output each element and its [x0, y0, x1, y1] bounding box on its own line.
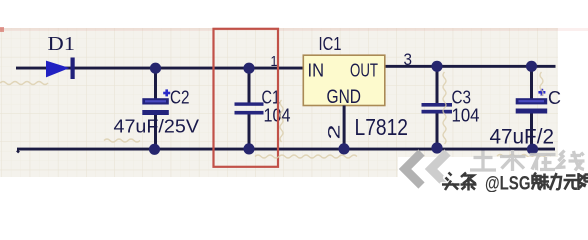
- value label 47uF/25V: [114, 115, 200, 136]
- junction dot: C1 top node: [243, 63, 254, 74]
- watermark dark text row: tou tiao @LSG mei li wu xian: [0, 0, 588, 192]
- watermark white band: [398, 157, 588, 192]
- capacitor C2 (electrolytic 47uF/25V): [142, 68, 169, 149]
- junction dot: GND pin node: [338, 143, 349, 154]
- diode D1: [46, 58, 75, 80]
- pin name OUT: [350, 60, 378, 81]
- value label 104 (C3): [452, 106, 480, 126]
- watermark logo chevron right: [431, 153, 448, 186]
- capacitor C4 (electrolytic 47uF/25V, clipped at right): [516, 65, 548, 149]
- watermark big gray text: xian: [558, 151, 585, 171]
- pin number 1: [271, 54, 278, 70]
- watermark char: tou: [442, 173, 460, 191]
- label D1: [48, 34, 76, 55]
- junction dot: C4 bottom node: [527, 144, 538, 155]
- junction dot: C3 top node: [431, 61, 442, 72]
- label C4 (clipped): [548, 88, 561, 108]
- plus sign of C4: [538, 89, 545, 96]
- schematic sheet background: [0, 28, 558, 177]
- wire: top rail from IC1 OUT pin to right edge: [385, 65, 556, 68]
- watermark big gray text: mu: [500, 150, 526, 171]
- watermark char: wu: [564, 176, 578, 190]
- junction dot: C4 top node: [526, 61, 537, 72]
- red highlight rectangle around C1: [214, 29, 279, 167]
- watermark char: li: [550, 173, 561, 190]
- junction dot: C2 top node: [150, 63, 161, 74]
- wire: top rail from left edge to IC1 IN pin: [16, 67, 304, 153]
- watermark char: xian: [579, 173, 588, 190]
- pin name GND: [327, 86, 362, 108]
- wire: GND pin of IC1 down to ground rail: [343, 106, 346, 149]
- label C3: [452, 88, 472, 108]
- capacitor C1 (ceramic 104): [235, 68, 264, 149]
- pink smear line across top: [0, 27, 588, 32]
- pin number 2 (rotated): [325, 125, 344, 140]
- value label 104 (C1): [264, 105, 291, 125]
- junction dot: C1 bottom node: [243, 143, 254, 154]
- watermark big gray text: zai: [530, 155, 556, 172]
- junction dot: C2 bottom node: [149, 144, 160, 155]
- label IC1: [319, 34, 342, 54]
- capacitor C3 (ceramic 104): [422, 65, 453, 148]
- watermark big gray text: tu: [470, 151, 496, 171]
- wire: bottom ground rail: [17, 148, 555, 151]
- pin number 3: [404, 50, 413, 69]
- junction dot: C3 bottom node: [431, 142, 442, 153]
- value label 47uF/25V (clipped to 47uF/2): [490, 126, 555, 149]
- pin name IN: [308, 60, 325, 81]
- svg-text:@LSG: @LSG: [485, 173, 531, 193]
- jpeg squiggle artifacts: [0, 72, 551, 158]
- watermark char: tiao: [461, 173, 477, 191]
- plus sign of C2: [163, 89, 170, 96]
- regulator IC1 body: [303, 55, 385, 105]
- label C2: [170, 87, 190, 107]
- watermark char: mei: [532, 173, 549, 190]
- watermark logo chevron left: [405, 153, 422, 186]
- label C1: [262, 88, 281, 108]
- value label L7812: [355, 114, 409, 140]
